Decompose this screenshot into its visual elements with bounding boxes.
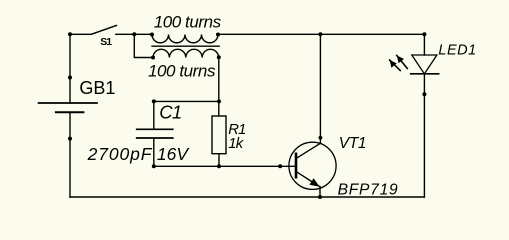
svg-text:100 turns: 100 turns <box>154 13 222 32</box>
svg-text:LED1: LED1 <box>438 42 476 58</box>
svg-text:C1: C1 <box>159 102 181 123</box>
svg-text:1k: 1k <box>228 136 245 152</box>
svg-text:2700pF: 2700pF <box>87 144 153 164</box>
svg-text:VT1: VT1 <box>339 135 366 152</box>
svg-text:BFP719: BFP719 <box>338 182 399 199</box>
svg-text:16V: 16V <box>157 144 190 164</box>
svg-text:S1: S1 <box>100 36 112 48</box>
svg-text:100 turns: 100 turns <box>148 62 216 81</box>
svg-text:GB1: GB1 <box>79 78 115 98</box>
